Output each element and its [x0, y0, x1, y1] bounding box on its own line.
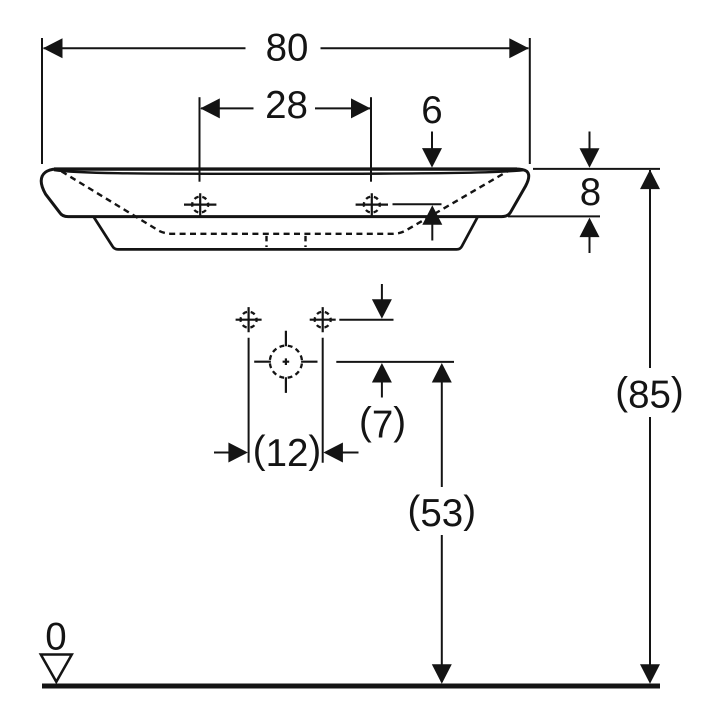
svg-text:28: 28: [265, 84, 308, 127]
dimension 28: line: [201, 107, 370, 109]
dimension 28: extension line left: [199, 97, 201, 182]
fixing hole right: dashed circle: [315, 312, 331, 328]
dimension 8: down arrowhead: [580, 148, 600, 168]
dimension 28: arrow left: [200, 98, 220, 118]
tap hole left: centerlines: [184, 193, 216, 217]
dimension 8: lower reference line: [508, 215, 600, 217]
drain hole: center cross: [283, 358, 290, 365]
hidden drain tick right (dashed): [304, 236, 306, 247]
svg-text:8: 8: [580, 171, 601, 214]
dimension 6: lower reference line: [393, 203, 442, 205]
svg-text:(85): (85): [615, 371, 683, 417]
datum triangle: [41, 655, 72, 682]
dimension 53: down arrowhead: [432, 664, 452, 684]
dimension 12: right stem: [342, 452, 359, 454]
dimension 6: up arrow stem: [431, 224, 433, 241]
dimension 80: arrow left: [43, 38, 63, 58]
tap hole right: centerlines: [356, 193, 388, 217]
dimension 53: up arrowhead: [432, 363, 452, 383]
svg-text:(7): (7): [359, 400, 406, 446]
dimension 12: right-pointing arrowhead: [228, 443, 248, 463]
dimension 7: down arrowhead: [372, 299, 392, 319]
svg-text:(53): (53): [408, 489, 476, 535]
fixing hole left: dashed circle: [241, 312, 257, 328]
dimension 28: arrow right: [351, 98, 371, 118]
dimension 80: line: [44, 47, 529, 49]
dimension 80: extension line right: [529, 38, 531, 164]
drain hole: centerlines: [254, 331, 317, 393]
dimension 6: down arrow stem: [431, 132, 433, 150]
tap hole right: dashed circle: [364, 197, 380, 213]
drain hole: dashed circle: [270, 346, 302, 378]
hidden bowl contour (dashed): [62, 171, 508, 233]
dimension 7: up arrowhead: [372, 363, 392, 383]
dimension 8: down arrow stem: [589, 132, 591, 150]
dimension 8: up arrow stem: [589, 237, 591, 253]
dimension 85: down arrowhead: [640, 664, 660, 684]
dimension 12: extension line right: [322, 338, 324, 463]
dimension 53: vertical line: [441, 382, 443, 683]
dimension 7: upper reference line: [339, 319, 393, 321]
hidden drain tick left (dashed): [265, 236, 267, 247]
fixing hole left: centerlines: [236, 307, 262, 332]
svg-text:(12): (12): [253, 429, 321, 475]
dimension 12: left stem: [214, 452, 231, 454]
svg-text:0: 0: [45, 616, 66, 659]
dimension 6: up arrowhead: [422, 205, 442, 225]
dimension 80: arrow right: [509, 38, 529, 58]
basin top edge emphasis: [54, 167, 517, 170]
dimension 7: down arrow stem: [381, 284, 383, 301]
basin inner rim line: [54, 170, 523, 174]
dimension 85: up arrowhead: [640, 170, 660, 190]
dimension 7: lower reference line: [336, 361, 454, 363]
svg-text:80: 80: [266, 27, 309, 70]
dimension 28: extension line right: [370, 97, 372, 182]
tap hole left: dashed circle: [192, 197, 208, 213]
dimension 85: vertical line: [649, 170, 651, 682]
svg-text:6: 6: [421, 89, 442, 132]
dimension 7: up arrow stem: [381, 382, 383, 398]
dimension 85: top reference line: [533, 168, 660, 170]
basin pedestal fill+outline: [94, 217, 478, 250]
dimension 12: left-pointing arrowhead: [323, 443, 343, 463]
fixing hole right: centerlines: [310, 307, 336, 332]
dimension 6: down arrowhead: [422, 148, 442, 168]
floor baseline: [42, 684, 660, 689]
dimension 12: extension line left: [248, 338, 250, 463]
basin upper body fill+outline: [41, 169, 528, 217]
dimension 8: up arrowhead: [580, 218, 600, 238]
dimension 80: extension line left: [41, 38, 43, 164]
